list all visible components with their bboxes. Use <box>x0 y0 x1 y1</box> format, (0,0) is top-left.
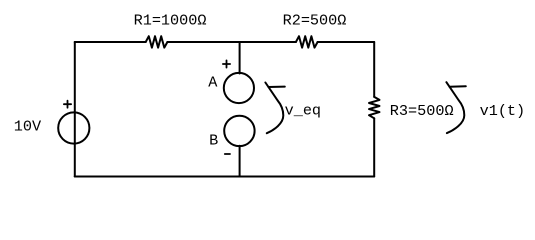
svg-text:v_eq: v_eq <box>285 102 321 120</box>
svg-text:v1(t): v1(t) <box>480 102 526 120</box>
wire top-left segment <box>75 41 146 43</box>
source B circle <box>224 116 254 146</box>
svg-text:R3=500Ω: R3=500Ω <box>390 102 454 120</box>
svg-text:B: B <box>209 132 218 150</box>
wire bottom <box>75 176 375 178</box>
wire middle lower <box>239 146 241 177</box>
minus sign below source B <box>225 153 230 155</box>
plus sign of source V1 <box>64 101 71 108</box>
resistor R2 <box>296 36 318 47</box>
plus sign above source A <box>223 60 230 67</box>
arrow v1 <box>446 82 464 133</box>
svg-text:10V: 10V <box>14 118 42 136</box>
wire left <box>74 42 76 177</box>
arrow v_eq <box>265 83 283 134</box>
wire right lower <box>373 118 375 176</box>
wire right upper <box>373 42 375 97</box>
wire top-right segment <box>318 41 375 43</box>
source A circle <box>224 73 254 103</box>
wire middle upper <box>239 42 241 74</box>
svg-text:R2=500Ω: R2=500Ω <box>283 12 347 30</box>
svg-text:R1=1000Ω: R1=1000Ω <box>134 11 207 29</box>
voltage source V1 circle <box>58 112 89 143</box>
wire top-middle segment <box>167 41 296 43</box>
resistor R3 <box>369 97 380 118</box>
resistor R1 <box>146 36 168 47</box>
svg-text:A: A <box>208 73 218 91</box>
